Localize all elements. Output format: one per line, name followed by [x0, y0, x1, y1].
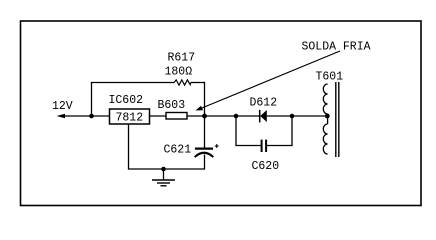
node junction D612 left: [234, 114, 239, 119]
svg-text:R617: R617: [168, 52, 196, 65]
wire bypass left vertical: [91, 83, 93, 117]
core line 2: [338, 82, 340, 157]
callout line to cold solder joint: [200, 51, 341, 109]
wire IC602 output to B603: [150, 115, 167, 117]
wire junction down to C621: [204, 116, 206, 148]
node junction D612 right: [290, 114, 295, 119]
transformer T601: [316, 71, 344, 158]
resistor R617: [174, 80, 191, 85]
core line 1: [335, 82, 337, 157]
winding tap segment: [327, 114, 329, 124]
wire IC602 ground pin down: [128, 124, 130, 170]
diode D612: [250, 97, 278, 123]
resistor B603: [166, 113, 187, 120]
svg-text:C620: C620: [252, 160, 280, 173]
svg-text:C621: C621: [164, 144, 192, 157]
svg-text:B603: B603: [158, 99, 186, 112]
wire bypass top right segment: [191, 82, 205, 84]
wire D612 node to transformer tap: [292, 115, 327, 117]
node 12V arrow: [57, 114, 66, 118]
border frame: [21, 21, 422, 206]
svg-text:12V: 12V: [52, 100, 73, 113]
wire D612 right lead: [267, 115, 292, 117]
wire C620 branch right vertical: [267, 116, 292, 146]
wire 12V rail to IC602 input: [63, 115, 110, 117]
ground: [152, 169, 175, 186]
svg-text:T601: T601: [316, 71, 344, 84]
wire C620 branch left vertical: [236, 116, 261, 146]
callout arrowhead: [196, 106, 204, 111]
svg-text:7812: 7812: [116, 112, 144, 125]
wire D612 left lead: [236, 115, 260, 117]
capacitor C620: [252, 140, 280, 173]
svg-text:180Ω: 180Ω: [165, 66, 193, 79]
wire B603 to node and on to D612 branch: [187, 115, 236, 117]
node ground junction: [161, 167, 166, 172]
wire ground rail horizontal: [129, 168, 206, 170]
winding upper: [323, 84, 327, 114]
node transformer tap: [325, 114, 330, 119]
svg-text:IC602: IC602: [109, 94, 144, 107]
svg-text:SOLDA FRIA: SOLDA FRIA: [302, 40, 371, 53]
wire C621 bottom to ground rail: [204, 155, 206, 170]
svg-text:D612: D612: [250, 97, 278, 110]
op-amp IC602 regulator box: [109, 94, 150, 125]
wire bypass top left segment: [91, 82, 174, 84]
node junction at bypass left: [89, 114, 94, 119]
node junction B603 output: [202, 114, 207, 119]
polarity plus: [215, 145, 219, 147]
capacitor C621: [164, 144, 219, 158]
winding lower: [323, 124, 327, 154]
wire bypass right vertical down to junction: [204, 82, 206, 116]
